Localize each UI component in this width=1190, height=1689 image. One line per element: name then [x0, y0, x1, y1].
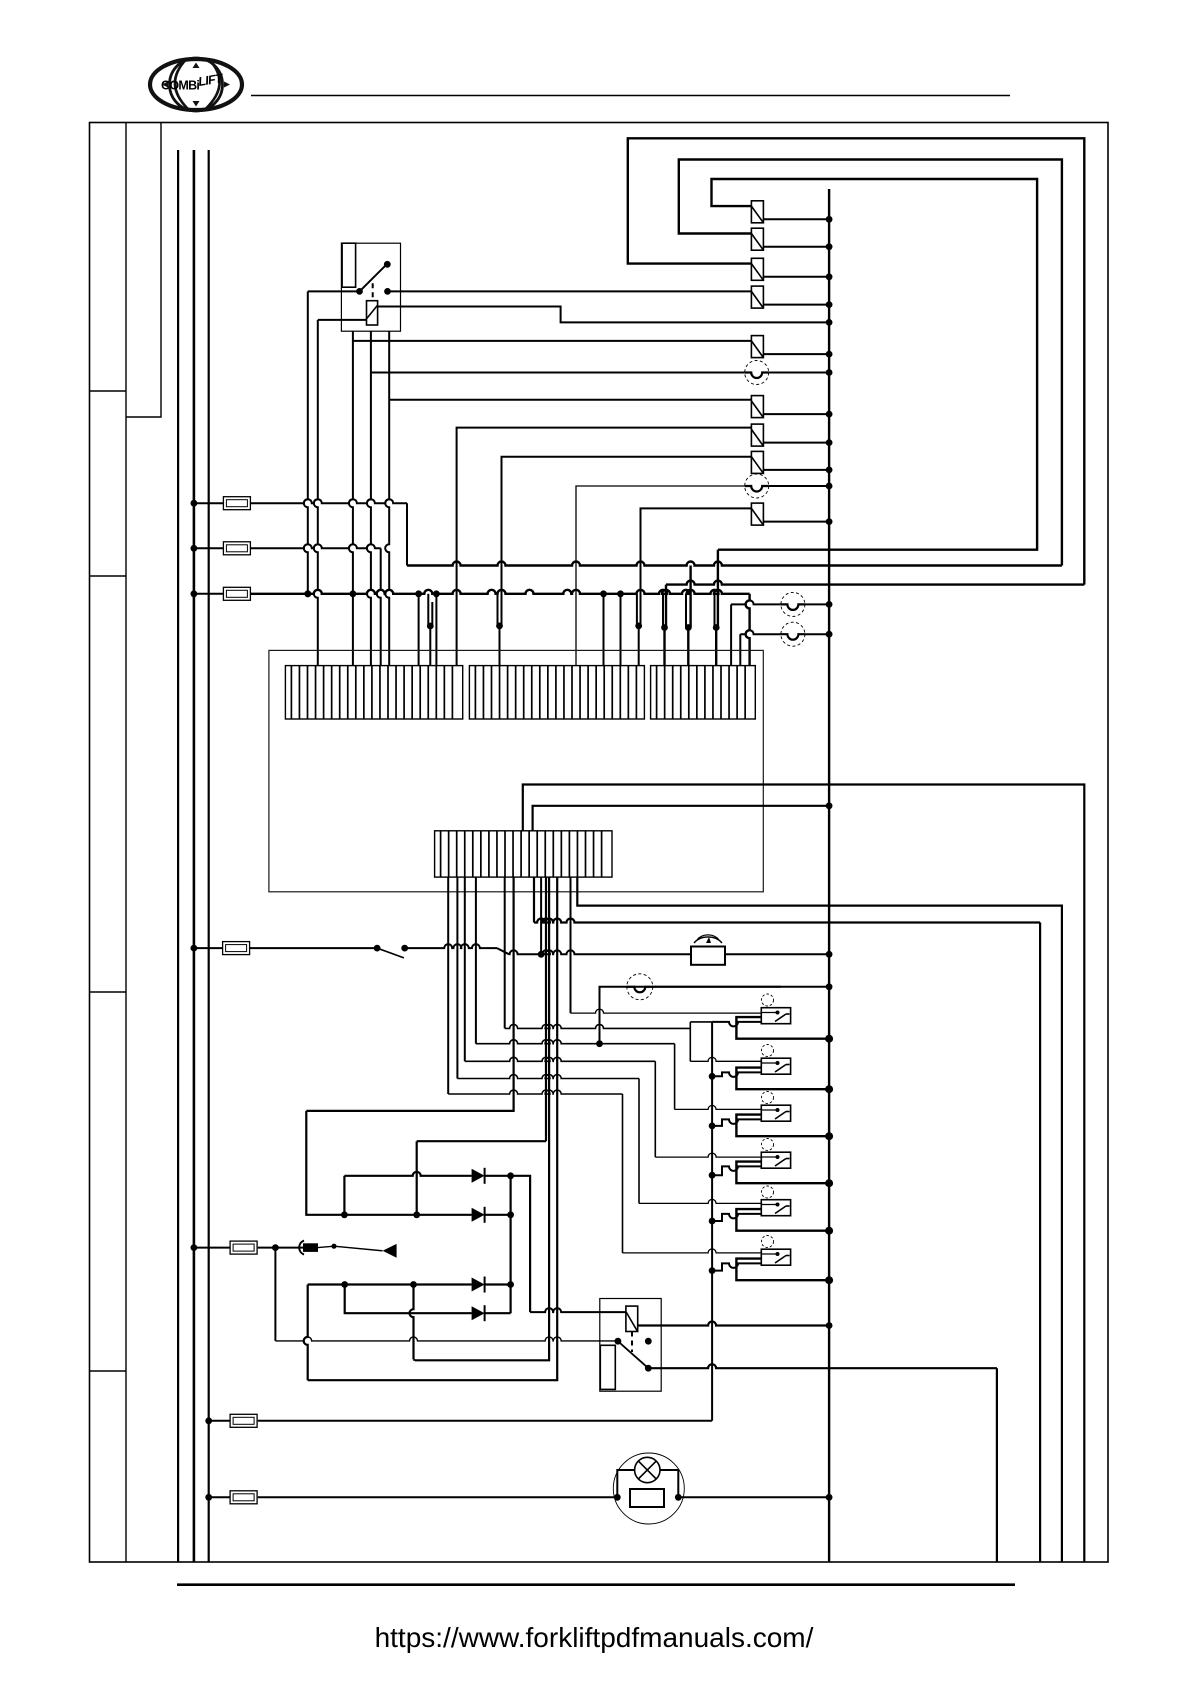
frame divider 1 [90, 390, 127, 392]
relay K4 [762, 1045, 774, 1057]
wire u2 coil feed [690, 1057, 761, 1061]
lamp X7 [745, 361, 769, 385]
wire relay K8 coil return [709, 1267, 716, 1274]
connector X8 [751, 396, 763, 418]
wire diode block feed 1 [306, 877, 513, 1111]
wire u1 switch feed net [504, 877, 506, 1028]
connector strip D [435, 831, 612, 877]
wire relay K5 coil return [709, 1123, 716, 1130]
fuse F3 [194, 593, 224, 595]
wire connector X2 output to bus [763, 246, 829, 248]
footer rule [177, 1583, 1015, 1586]
wire u1 coil feed [570, 877, 572, 1013]
wire relay K7 coil return [709, 1218, 716, 1225]
frame divider 3 [90, 991, 127, 993]
relay K8 [762, 1236, 774, 1248]
lamp L2 right of ECU [739, 634, 741, 665]
wire K2 area feed 2 [308, 877, 558, 1380]
node row2 on bus2 [191, 545, 198, 552]
wire key switch to K2 [274, 1248, 276, 1341]
connector X10 [751, 451, 763, 473]
wire relay K7 output to bus [736, 1209, 829, 1231]
wire S1 pin3 to connector row8 [385, 331, 389, 665]
wire row4 to horn [405, 944, 497, 948]
wire row1 [250, 499, 407, 503]
wire connector X3 output to bus [763, 276, 829, 278]
connector strip A [285, 666, 462, 719]
supply bus wire 3 [208, 150, 210, 1562]
row3 taps into connector block [418, 594, 420, 666]
switch S2 [249, 947, 377, 949]
wire comb D up 1 to right drop [523, 785, 1085, 1563]
wire row7 to lamp unit [258, 1496, 618, 1498]
junction pair comb3 spiral middle [685, 594, 687, 628]
frame inner vertical [125, 123, 127, 1563]
ECU box [269, 650, 763, 891]
lamp L3 [600, 987, 781, 1044]
wire diode D4 line [345, 1285, 472, 1314]
relay K2 pin rect [600, 1345, 615, 1389]
wire comb D to horn junction [540, 877, 542, 954]
wire connector X9 output to bus [763, 442, 829, 444]
wire connector X12 output to bus [763, 521, 829, 523]
wire relay K4 output to bus [736, 1068, 829, 1090]
supply bus wire 1 [177, 150, 179, 1562]
wire S1 common to row3 [308, 290, 360, 292]
fuse F5 [194, 1247, 230, 1249]
wire connector X6 output to bus [763, 353, 829, 355]
wire spiral middle (row1 return) [679, 160, 1062, 566]
relay K2 coil [626, 1306, 638, 1331]
wire diode D3 line [308, 1283, 472, 1285]
relay S1 inner pin rect [342, 243, 356, 287]
relay chain wire [711, 1022, 713, 1421]
wire row6 to relay chain [258, 1420, 712, 1422]
wire comb D to right lower drop B [533, 877, 535, 922]
svg-text:COMBi: COMBi [161, 79, 199, 93]
wire connector X8 output to bus [763, 413, 829, 415]
junction pair comb3 spiral outer [662, 594, 664, 628]
connector X6 [751, 336, 763, 358]
fuse F6 [209, 1420, 230, 1422]
wire comb D to right lower drop A [577, 877, 1062, 1562]
wire diode block to K2 coil [511, 1176, 530, 1312]
junction pair comb3 spiral inner [714, 594, 716, 628]
junction pair comb2 b [636, 594, 638, 626]
relay S1 dashed link [372, 283, 374, 299]
junction pair comb1 [427, 594, 429, 626]
wire connector X10 output to bus [763, 469, 829, 471]
relay K5 [762, 1092, 774, 1104]
supply bus wire 2 [193, 150, 196, 1562]
svg-text:https://www.forkliftpdfmanuals: https://www.forkliftpdfmanuals.com/ [375, 1622, 814, 1653]
fuse F1 [194, 502, 224, 504]
diode D3 [472, 1278, 485, 1292]
node row5 on bus2 [191, 1244, 198, 1251]
border frame [90, 123, 1109, 1563]
relay S1 coil [367, 301, 378, 325]
relay K2 box [600, 1299, 661, 1392]
wire relay K3 output to bus [736, 1017, 829, 1039]
relay S1 switch contacts [356, 288, 363, 295]
wire connector X4 output to bus [763, 304, 829, 306]
wire connector X1 output to bus [763, 218, 829, 220]
relay S1 switch blade [360, 266, 386, 291]
relay K2 blade [618, 1341, 648, 1368]
node row1 on bus2 [191, 500, 198, 507]
wire relay K5 output to bus [736, 1115, 829, 1137]
wire diode join vertical [510, 1176, 512, 1313]
wire relay K3 coil return [712, 1022, 761, 1027]
frame divider 2 [90, 575, 127, 577]
nodes on row3 [304, 590, 311, 597]
Combilift logo [150, 58, 242, 111]
wire S1 pin1 to connector row6 [349, 331, 353, 665]
lamp X11 [745, 474, 769, 498]
wire K2 area feed 1 [415, 877, 549, 1360]
wire lamp row11 feed [576, 486, 745, 666]
wire diode D2 line [341, 1211, 348, 1218]
frame divider 4 [90, 1370, 127, 1372]
wire u5 coil feed [456, 877, 458, 1078]
header rule [251, 95, 1010, 97]
diode D1 [472, 1169, 485, 1183]
relay K6 [762, 1139, 774, 1151]
relay K7 [762, 1186, 774, 1198]
wire lamp unit to bus [678, 1496, 829, 1498]
wire u6 coil feed [447, 877, 449, 1094]
diode D4 [472, 1306, 485, 1320]
wire row3 main feed [250, 590, 749, 594]
wire S1 coil left to connector block [318, 319, 367, 321]
connector X12 [751, 503, 763, 525]
relay S1 box [341, 243, 400, 331]
wire S1 pin2 to lamp row7 [367, 331, 371, 665]
relay K2 contacts [615, 1338, 622, 1345]
wire relay K8 output to bus [736, 1259, 829, 1281]
wire S1 NO contact to connector row4 [388, 290, 752, 292]
horn / gauge M1 [691, 947, 725, 965]
wire connector row9 feed [457, 428, 752, 666]
connector X2 [751, 228, 763, 250]
key switch S3 [275, 1247, 304, 1249]
wire connector row10 feed [502, 457, 752, 626]
lamp L1 right of ECU [730, 604, 732, 665]
node row7 on bus3 [205, 1494, 212, 1501]
wire spiral inner [712, 179, 1038, 550]
connector X1 [751, 201, 763, 223]
wire u4 coil feed [464, 877, 466, 1061]
wire diode D1 anode [343, 1176, 345, 1215]
wire K2 coil out to bus [638, 1322, 829, 1326]
wire S1 coil right to bus [378, 307, 829, 323]
diode D2 [472, 1208, 485, 1222]
wire K2 NO out to right drop [648, 1364, 997, 1368]
wire connector row12 feed [641, 508, 752, 626]
frame stub vertical [126, 123, 161, 418]
connector X4 [751, 286, 763, 308]
wire diode block feed 2 [545, 877, 547, 1141]
relay K3 [762, 994, 774, 1006]
fuse F7 [209, 1496, 230, 1498]
lamp unit E1 [613, 1453, 684, 1524]
junction pair comb2 a [497, 594, 499, 626]
main distribution bus wire [828, 189, 830, 1562]
fuse F2 [194, 547, 224, 549]
node row4 on bus2 [191, 945, 198, 952]
connector strip C [651, 666, 756, 719]
node row6 on bus3 [205, 1417, 212, 1424]
wire relay K6 output to bus [736, 1162, 829, 1184]
wire row2 [250, 544, 381, 548]
wire spiral outer [666, 581, 1084, 585]
connector X3 [751, 258, 763, 280]
wire key switch branch vertical [304, 1285, 308, 1381]
fuse F4 [194, 947, 223, 949]
wire horn to bus [725, 953, 829, 955]
connector X9 [751, 424, 763, 446]
connector strip B [469, 666, 644, 719]
wire relay K4 coil return [709, 1073, 716, 1080]
relay K2 dashed link [631, 1332, 633, 1353]
wire D3 junction down to K2 feed [410, 1285, 414, 1360]
wire u3 coil feed [475, 877, 477, 1044]
wire relay K6 coil return [709, 1172, 716, 1179]
node row3 on bus2 [191, 590, 198, 597]
wire comb D up 2 to bus [533, 806, 830, 831]
